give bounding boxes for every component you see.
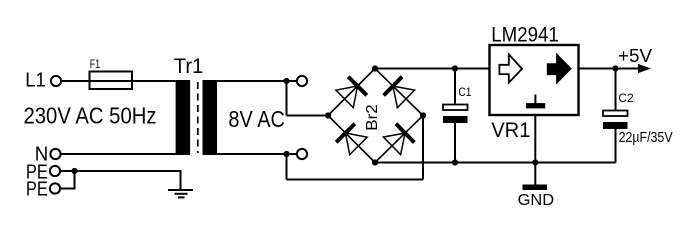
wire L1 to transformer xyxy=(62,80,176,82)
svg-text:VR1: VR1 xyxy=(491,118,530,142)
node bridge left xyxy=(325,112,331,118)
capacitor C2 xyxy=(603,69,673,163)
+5V output arrow xyxy=(618,46,652,73)
diode D3 bottom to left xyxy=(336,124,367,155)
diode D4 bottom to right xyxy=(383,124,414,155)
svg-text:L1: L1 xyxy=(25,70,46,92)
wire bridge edge right-bottom xyxy=(375,116,423,163)
junction secondary bottom xyxy=(283,151,289,157)
wire VR1 ground pin xyxy=(534,115,536,185)
svg-text:22µF/35V: 22µF/35V xyxy=(619,130,673,146)
terminal N xyxy=(35,143,61,165)
svg-text:Br2: Br2 xyxy=(364,104,381,131)
svg-text:LM2941: LM2941 xyxy=(491,24,559,47)
diode D2 right to top xyxy=(384,77,415,108)
earth ground xyxy=(168,190,193,197)
wire N to transformer xyxy=(61,153,175,155)
svg-text:+5V: +5V xyxy=(618,46,652,66)
node bridge top xyxy=(372,65,378,71)
wire bridge edge left-top xyxy=(328,69,375,116)
node bridge right xyxy=(420,112,426,118)
junction VR1 ground xyxy=(532,159,538,165)
wire VR1 output xyxy=(579,68,640,70)
terminal 8V AC top xyxy=(287,76,308,86)
wire PE bus to earth xyxy=(61,170,181,190)
fuse F1 xyxy=(90,57,133,89)
capacitor C1 xyxy=(443,69,472,163)
junction C1 bottom xyxy=(452,159,458,165)
wire secondary bottom xyxy=(217,116,423,180)
svg-text:C2: C2 xyxy=(618,91,634,105)
svg-text:GND: GND xyxy=(518,192,555,209)
terminal PE lower xyxy=(26,178,60,200)
wire positive rail xyxy=(375,68,490,70)
diode D1 left to top xyxy=(336,77,367,108)
junction PE xyxy=(71,168,77,174)
regulator VR1 LM2941 xyxy=(490,24,579,143)
svg-text:PE: PE xyxy=(26,178,48,200)
junction secondary top xyxy=(283,78,289,84)
svg-text:F1: F1 xyxy=(90,57,101,71)
ground GND xyxy=(518,185,555,210)
junction C1 top xyxy=(452,65,458,71)
svg-text:230V AC 50Hz: 230V AC 50Hz xyxy=(24,103,157,129)
terminal 8V AC bottom xyxy=(287,149,308,159)
junction C2 top xyxy=(612,65,618,71)
terminal PE upper xyxy=(26,162,60,184)
wire bridge edge bottom-left xyxy=(328,116,375,163)
transformer Tr1 xyxy=(174,55,217,155)
node bridge bottom xyxy=(372,159,378,165)
wire ground rail xyxy=(375,162,616,164)
svg-text:C1: C1 xyxy=(458,85,471,99)
wire bridge edge top-right xyxy=(375,69,423,116)
wire secondary top xyxy=(217,80,328,116)
svg-text:8V AC: 8V AC xyxy=(228,106,285,132)
svg-text:Tr1: Tr1 xyxy=(174,55,204,78)
terminal L1 xyxy=(25,70,61,92)
